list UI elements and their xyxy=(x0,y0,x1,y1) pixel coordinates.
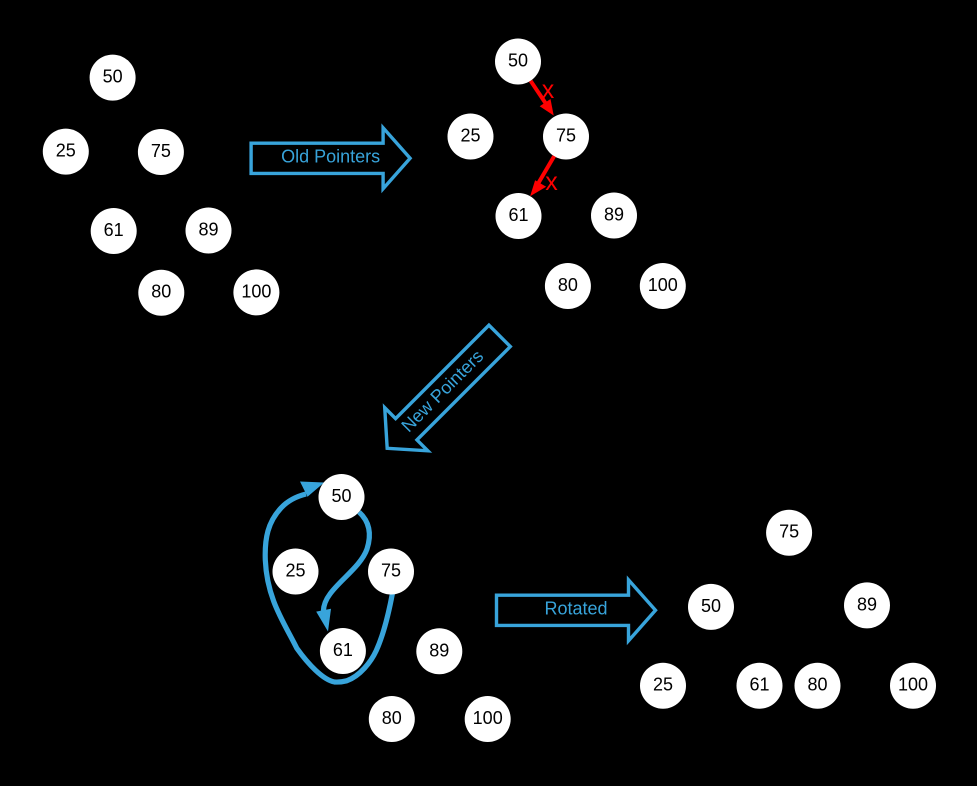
svg-text:61: 61 xyxy=(749,675,769,695)
svg-text:75: 75 xyxy=(779,522,799,542)
arrow Old Pointers xyxy=(251,128,410,189)
tree1 node 80 xyxy=(138,270,184,316)
svg-text:Rotated: Rotated xyxy=(544,599,607,619)
svg-text:x: x xyxy=(542,76,555,104)
svg-text:80: 80 xyxy=(151,282,171,302)
tree2 node 80 xyxy=(545,263,591,309)
red arrow 75 to 61 xyxy=(530,156,554,196)
svg-text:89: 89 xyxy=(198,220,218,240)
svg-text:50: 50 xyxy=(701,596,721,616)
tree1 node 25 xyxy=(43,129,89,175)
svg-text:80: 80 xyxy=(807,675,827,695)
svg-text:89: 89 xyxy=(429,640,449,660)
svg-text:x: x xyxy=(545,168,558,196)
svg-text:100: 100 xyxy=(473,708,503,728)
tree4 node 50 xyxy=(688,584,734,630)
svg-text:61: 61 xyxy=(333,640,353,660)
svg-text:100: 100 xyxy=(898,675,928,695)
svg-text:100: 100 xyxy=(241,281,271,301)
red arrow 50 to 75 xyxy=(531,81,554,116)
tree4 node 80 xyxy=(795,663,841,709)
tree3 node 80 xyxy=(369,696,415,742)
tree2 node 50 xyxy=(495,39,541,85)
svg-text:75: 75 xyxy=(556,126,576,146)
tree1 node 89 xyxy=(186,208,232,254)
blue curved arrow 50 to 61 (new right-child pointer) xyxy=(316,512,369,632)
svg-text:89: 89 xyxy=(857,594,877,614)
svg-text:Old Pointers: Old Pointers xyxy=(281,146,380,166)
tree3 node 61 xyxy=(320,628,366,674)
blue curved arrow 75 to 50 (new left-child pointer) xyxy=(265,482,392,683)
svg-text:61: 61 xyxy=(104,220,124,240)
tree2 node 61 xyxy=(496,193,542,239)
svg-text:61: 61 xyxy=(508,205,528,225)
tree1 node 100 xyxy=(233,269,279,315)
tree4 node 61 xyxy=(737,663,783,709)
tree4 node 75 xyxy=(766,510,812,556)
svg-text:80: 80 xyxy=(558,275,578,295)
tree3 node 89 xyxy=(416,628,462,674)
svg-text:89: 89 xyxy=(604,205,624,225)
tree3 node 100 xyxy=(465,696,511,742)
svg-text:100: 100 xyxy=(648,275,678,295)
tree4 node 100 xyxy=(890,663,936,709)
tree2 node 75 xyxy=(543,114,589,160)
arrow New Pointers xyxy=(366,314,522,470)
svg-text:25: 25 xyxy=(285,561,305,581)
tree2 node 89 xyxy=(591,193,637,239)
tree4 node 25 xyxy=(640,663,686,709)
tree4 node 89 xyxy=(844,582,890,628)
svg-text:50: 50 xyxy=(103,67,123,87)
svg-text:75: 75 xyxy=(381,561,401,581)
tree1 node 50 xyxy=(90,55,136,101)
svg-text:50: 50 xyxy=(331,486,351,506)
svg-text:75: 75 xyxy=(151,141,171,161)
svg-text:25: 25 xyxy=(653,675,673,695)
svg-text:25: 25 xyxy=(56,141,76,161)
tree2 node 100 xyxy=(640,263,686,309)
arrow Rotated xyxy=(497,580,656,641)
tree1 node 75 xyxy=(138,129,184,175)
svg-text:25: 25 xyxy=(460,126,480,146)
svg-text:50: 50 xyxy=(508,51,528,71)
tree3 node 25 xyxy=(273,549,319,595)
svg-text:80: 80 xyxy=(382,708,402,728)
tree3 node 50 xyxy=(319,474,365,520)
tree1 node 61 xyxy=(91,208,137,254)
tree2 node 25 xyxy=(448,114,494,160)
tree3 node 75 xyxy=(368,549,414,595)
